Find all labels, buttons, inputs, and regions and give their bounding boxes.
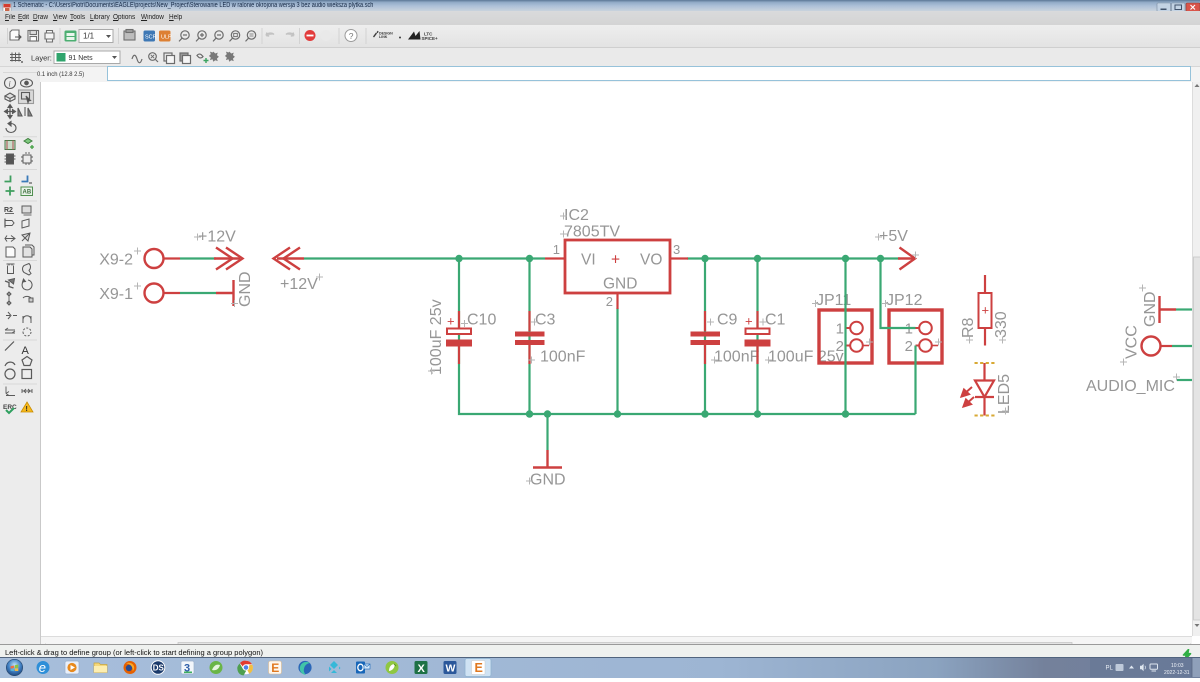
wire C1 vertical — [756, 259, 758, 415]
supply symbol +5V arrow — [898, 248, 915, 270]
wire JP11 vertical — [844, 259, 846, 415]
wire net +5V horizontal rail right segment — [687, 257, 900, 259]
svg-text:?: ? — [349, 31, 354, 41]
wire JP12 pin1 — [881, 259, 916, 329]
wire VCC right edge — [1172, 345, 1192, 347]
ground symbol GND right edge — [1160, 296, 1177, 323]
JP11 pin 1 — [850, 322, 863, 335]
svg-text:GND: GND — [237, 271, 254, 307]
capacitor C1 polarized — [745, 311, 844, 366]
outlook — [356, 662, 365, 674]
wire net +12V horizontal rail left segment — [304, 257, 545, 259]
diode LED5 — [975, 363, 994, 416]
svg-text:PL: PL — [1106, 666, 1114, 672]
svg-text:1/1: 1/1 — [83, 32, 95, 41]
wire JP12 pin2 to GND rail — [914, 346, 916, 415]
JP12 pin 1 — [919, 322, 932, 335]
resistor R8 — [960, 275, 1010, 346]
svg-text:+: + — [611, 252, 620, 269]
svg-text:+12V: +12V — [198, 229, 236, 246]
WMP — [65, 661, 79, 674]
LED5 emission arrows — [962, 387, 975, 407]
svg-text:R8: R8 — [960, 317, 977, 338]
eagle highlighted — [465, 659, 491, 677]
svg-text:W: W — [446, 663, 456, 675]
svg-text:C9: C9 — [717, 312, 738, 329]
svg-text:X9-1: X9-1 — [99, 286, 133, 303]
IC2 pin 3 VO — [670, 257, 688, 259]
svg-text:JP12: JP12 — [886, 292, 923, 309]
svg-text:!: ! — [26, 406, 28, 413]
svg-text:2022-12-31: 2022-12-31 — [1164, 670, 1190, 676]
start orb — [6, 659, 22, 675]
op-amp IC2 7805TV regulator body — [565, 240, 670, 293]
supply symbol +12V arrow right — [214, 248, 243, 270]
svg-text:C3: C3 — [535, 312, 556, 329]
svg-text:LINK: LINK — [379, 35, 388, 39]
wire AUDIO_MIC right edge — [1177, 379, 1192, 381]
IC2 pin 1 VI — [545, 257, 565, 259]
junction dots bottom rail — [526, 410, 849, 417]
svg-text:3: 3 — [673, 242, 680, 257]
svg-text:+: + — [982, 303, 990, 318]
svg-text:Layer:: Layer: — [31, 54, 52, 63]
green icon — [210, 661, 223, 674]
wire X9-1 to GND — [180, 292, 216, 294]
svg-text:X9-2: X9-2 — [99, 252, 133, 269]
connector JP11 body — [819, 310, 872, 363]
svg-text:C1: C1 — [765, 312, 786, 329]
notepad++ — [386, 661, 399, 674]
excel — [415, 661, 428, 674]
connector pin X9-1 — [145, 284, 164, 303]
svg-text:2: 2 — [836, 338, 844, 355]
svg-text:VI: VI — [581, 252, 596, 269]
svg-text:E: E — [475, 661, 483, 675]
svg-text:7805TV: 7805TV — [564, 224, 620, 241]
capacitor C9 — [691, 311, 760, 366]
chrome — [239, 661, 253, 675]
svg-text:R2: R2 — [4, 207, 13, 214]
svg-text:+: + — [745, 314, 753, 329]
svg-text:e: e — [39, 660, 46, 675]
svg-text:100uF 25v: 100uF 25v — [428, 299, 445, 375]
wire IC2 pin2 drop — [616, 308, 618, 414]
svg-text:X: X — [418, 663, 426, 675]
svg-text:10:03: 10:03 — [1171, 663, 1184, 669]
svg-text:1: 1 — [836, 321, 844, 338]
svg-text:SPICE+: SPICE+ — [422, 36, 439, 41]
word — [444, 661, 457, 674]
edge — [298, 661, 311, 674]
origin cross markers — [134, 213, 1180, 485]
svg-text:AUDIO_MIC: AUDIO_MIC — [1086, 378, 1175, 395]
wire GND stub below rail — [546, 414, 548, 450]
explorer folder — [94, 663, 107, 673]
svg-text:2: 2 — [905, 338, 913, 355]
ground symbol GND near X9-1 — [216, 280, 234, 306]
wire GND right edge — [1176, 308, 1192, 310]
svg-text:IC2: IC2 — [564, 207, 589, 224]
connector JP12 body — [889, 310, 942, 363]
svg-text:ULP: ULP — [161, 34, 172, 40]
svg-text:GND: GND — [530, 472, 566, 489]
svg-text:91 Nets: 91 Nets — [69, 55, 94, 62]
svg-text:A: A — [22, 345, 30, 357]
svg-text:GND: GND — [1142, 291, 1159, 327]
svg-text:GND: GND — [603, 276, 637, 293]
svg-text:100nF: 100nF — [540, 349, 586, 366]
svg-text:AB: AB — [23, 190, 32, 196]
svg-text:330: 330 — [993, 311, 1010, 338]
svg-text:C10: C10 — [467, 312, 496, 329]
svg-text:1: 1 — [553, 242, 560, 257]
junction dots top rail — [455, 255, 884, 262]
svg-text:2: 2 — [606, 294, 613, 309]
svg-text:VCC: VCC — [1124, 325, 1141, 359]
svg-text:ERC: ERC — [3, 404, 17, 411]
svg-text:SCR: SCR — [145, 34, 157, 40]
wire C9 vertical — [704, 259, 706, 415]
capacitor C10 polarized — [428, 299, 496, 375]
svg-text:+5V: +5V — [879, 228, 908, 245]
JP12 pin 2 — [919, 339, 932, 352]
svg-text:100nF: 100nF — [714, 349, 760, 366]
ground symbol GND below rail — [533, 450, 562, 468]
JP11 pin 2 — [850, 339, 863, 352]
3 doc — [181, 661, 194, 674]
svg-text:DS: DS — [153, 664, 165, 673]
firefox — [124, 661, 137, 674]
DS — [151, 661, 165, 675]
capacitor C3 — [515, 311, 586, 366]
svg-text:E: E — [271, 661, 279, 675]
supply pin VCC right edge — [1142, 337, 1161, 356]
wire GND bottom rail — [459, 259, 916, 415]
IE — [37, 661, 50, 674]
wire X9-2 to +12V arrow — [180, 257, 216, 259]
kodi — [329, 661, 341, 673]
svg-text:i: i — [9, 80, 11, 89]
connector pin X9-2 — [145, 249, 164, 268]
wire C3 vertical — [528, 259, 530, 415]
LED5 pin tick top — [975, 362, 995, 364]
eagle E small — [269, 661, 282, 674]
svg-text:LED5: LED5 — [996, 374, 1013, 414]
svg-text:+: + — [447, 314, 455, 329]
supply symbol +12V arrow left — [274, 248, 305, 270]
LED5 pin tick bottom — [975, 415, 995, 417]
svg-text:+12V: +12V — [280, 276, 318, 293]
svg-text:VO: VO — [640, 252, 662, 269]
IC2 pin 2 GND — [616, 293, 618, 309]
